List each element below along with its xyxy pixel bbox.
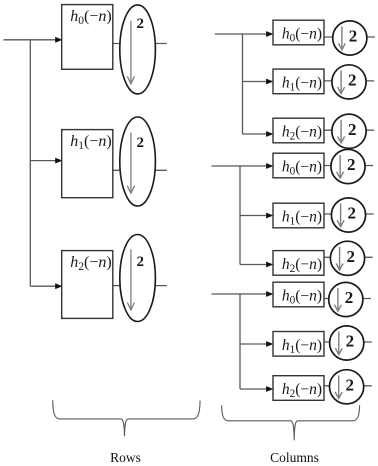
wire: columns group 3 vertical: [239, 293, 241, 389]
wire: filter h2 to downsampler (rows) + output stub: [113, 285, 167, 287]
filter box h1(-n) rows: [62, 130, 113, 198]
svg-text:Columns: Columns: [270, 450, 319, 465]
filter box h0(-n) rows: [62, 5, 113, 70]
svg-text:2: 2: [349, 27, 358, 46]
brace: Rows: [53, 400, 200, 436]
filter box h2(-n) columns row 6: [273, 251, 324, 276]
filter box h2(-n) columns row 3: [273, 118, 324, 143]
svg-text:2: 2: [348, 71, 357, 90]
svg-text:2: 2: [348, 120, 357, 139]
downsampler circle columns row 7: [329, 282, 363, 316]
wire: columns group 2 vertical: [239, 165, 241, 264]
wire: columns row 6 box to downsampler + output stub: [323, 256, 373, 258]
wire: columns group 1 vertical: [242, 33, 244, 134]
arrowhead into rows filter h1: [55, 158, 62, 164]
wire: columns row 2 box to downsampler + output stub: [323, 80, 374, 82]
arrowhead into rows filter h0: [55, 37, 62, 43]
svg-text:2: 2: [137, 16, 145, 32]
svg-text:h2(−n): h2(−n): [70, 254, 111, 273]
downsampler circle columns row 2: [332, 65, 366, 99]
svg-text:h1(−n): h1(−n): [282, 209, 322, 228]
arrowhead into rows filter h2: [55, 283, 62, 289]
downsampler circle columns row 4: [331, 149, 365, 183]
filter box h1(-n) columns row 8: [273, 332, 324, 357]
svg-text:2: 2: [347, 155, 356, 174]
svg-text:2: 2: [346, 247, 355, 266]
svg-text:h0(−n): h0(−n): [282, 288, 322, 307]
wire: columns row 4 box to downsampler + output stub: [323, 165, 373, 167]
brace: Columns: [222, 405, 360, 440]
wire: branch to rows filter h2: [30, 285, 61, 287]
svg-text:2: 2: [346, 375, 355, 394]
svg-text:h1(−n): h1(−n): [282, 74, 322, 93]
wire: columns row 3 box to downsampler + output stub: [323, 129, 374, 131]
filter box h1(-n) columns row 2: [273, 69, 324, 94]
wire: branch to columns h2 (group 2): [240, 264, 266, 266]
svg-text:2: 2: [347, 204, 356, 223]
wire: branch to columns h1 (group 2): [240, 215, 266, 217]
svg-text:h1(−n): h1(−n): [70, 133, 111, 152]
wire: columns row 7 box to downsampler + output stub: [323, 298, 371, 300]
downsampler ellipse (rows, after h1): [120, 117, 156, 206]
wire: branch to columns h2 (group 1): [243, 133, 267, 135]
wire: branch to rows filter h1: [30, 160, 61, 162]
downsampler circle columns row 9: [330, 370, 364, 404]
wire: columns row 5 box to downsampler + output stub: [323, 213, 374, 215]
wire: columns row 9 box to downsampler + output stub: [323, 385, 372, 387]
wire: filter h0 to downsampler (rows) + output stub: [113, 43, 167, 45]
svg-text:Rows: Rows: [110, 450, 141, 465]
downsampler circle columns row 5: [331, 198, 365, 232]
filter box h2(-n) columns row 9: [273, 376, 324, 401]
wire: columns row 1 box to downsampler + output stub: [323, 36, 375, 38]
filter box h2(-n) rows: [62, 251, 113, 319]
filter box h0(-n) columns row 1: [273, 20, 324, 45]
wire: branch to columns h2 (group 3): [240, 388, 266, 390]
svg-text:2: 2: [346, 332, 355, 351]
wire: columns group 3 input: [212, 293, 267, 295]
wire: main input (rows stage): [3, 39, 61, 41]
svg-text:h1(−n): h1(−n): [282, 337, 322, 356]
filter box h1(-n) columns row 5: [273, 203, 324, 228]
filter box h0(-n) columns row 4: [273, 153, 324, 178]
wire: columns group 1 input: [215, 33, 266, 35]
wire: columns row 8 box to downsampler + output stub: [323, 341, 372, 343]
wire: columns group 2 input: [212, 165, 267, 167]
svg-text:h2(−n): h2(−n): [282, 256, 322, 275]
downsampler ellipse (rows, after h0): [120, 5, 156, 94]
svg-text:h2(−n): h2(−n): [282, 381, 322, 400]
svg-text:h2(−n): h2(−n): [282, 124, 322, 143]
downsampler circle columns row 1: [333, 21, 367, 55]
svg-text:2: 2: [345, 288, 354, 307]
downsampler circle columns row 8: [330, 326, 364, 360]
svg-text:h0(−n): h0(−n): [282, 159, 322, 178]
svg-text:h0(−n): h0(−n): [70, 8, 111, 27]
wire: branch to columns h1 (group 3): [240, 343, 266, 345]
downsampler circle columns row 6: [330, 241, 364, 275]
svg-text:2: 2: [137, 135, 145, 151]
svg-text:2: 2: [137, 254, 145, 270]
filter box h0(-n) columns row 7: [273, 282, 324, 307]
wire: filter h1 to downsampler (rows) + output stub: [113, 169, 167, 171]
svg-text:h0(−n): h0(−n): [282, 26, 322, 45]
downsampler ellipse (rows, after h2): [120, 235, 156, 322]
downsampler circle columns row 3: [332, 114, 366, 148]
wire: branch to columns h1 (group 1): [243, 81, 267, 83]
wire: left vertical distribution: [29, 39, 31, 286]
